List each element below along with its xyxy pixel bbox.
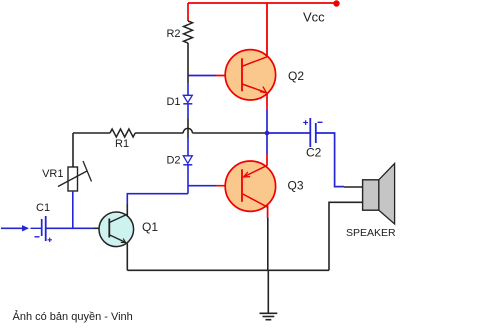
wire: rail to ground bbox=[267, 270, 269, 313]
transistor Q1 bbox=[99, 212, 158, 247]
wire: D2 to Q3 base node bbox=[187, 165, 189, 194]
wire: node to Q3 base bbox=[188, 185, 216, 187]
speaker bbox=[346, 164, 396, 240]
wire: Vcc rail to R2 bbox=[187, 3, 189, 21]
potentiometer VR1 bbox=[42, 161, 91, 191]
svg-text:Q2: Q2 bbox=[288, 69, 304, 83]
wire: Q2 base node to Q2 base bbox=[188, 75, 216, 77]
svg-text:Ảnh có bản quyền - Vinh: Ảnh có bản quyền - Vinh bbox=[13, 310, 133, 323]
capacitor C2 bbox=[303, 118, 322, 160]
wire: Q1 emitter to bottom rail bbox=[126, 244, 128, 271]
wire: Vcc rail to Q2 collector bbox=[266, 3, 268, 57]
capacitor C1 bbox=[35, 202, 53, 242]
wire: bottom rail bbox=[127, 269, 329, 271]
Vcc supply dot bbox=[333, 0, 339, 6]
svg-text:Vcc: Vcc bbox=[303, 10, 325, 25]
wire: R2 to Q2 base node bbox=[187, 43, 189, 76]
wire: C2 to speaker top terminal bbox=[316, 133, 344, 187]
resistor R1 bbox=[73, 129, 183, 150]
svg-text:D2: D2 bbox=[166, 155, 180, 167]
svg-text:C1: C1 bbox=[36, 202, 50, 214]
wire: speaker return to rail bbox=[329, 202, 363, 270]
node: output junction dot bbox=[265, 131, 270, 136]
svg-text:SPEAKER: SPEAKER bbox=[346, 227, 396, 239]
wire: VR1 to input node bbox=[72, 191, 74, 228]
diode D2 bbox=[166, 155, 192, 167]
svg-text:C2: C2 bbox=[306, 146, 322, 160]
svg-text:R2: R2 bbox=[166, 28, 180, 40]
wire: node to Q1 collector bbox=[127, 194, 188, 204]
svg-text:R1: R1 bbox=[115, 138, 129, 150]
wire: output node to C2 bbox=[267, 132, 310, 134]
wire: C1 to Q1 base bbox=[46, 227, 94, 229]
svg-text:VR1: VR1 bbox=[42, 168, 63, 180]
svg-text:Q3: Q3 bbox=[288, 179, 304, 193]
input signal arrow bbox=[1, 225, 41, 231]
transistor Q3 bbox=[225, 161, 304, 211]
transistor Q2 bbox=[225, 50, 304, 100]
ground bbox=[260, 313, 278, 319]
wire: hop to output node bbox=[192, 132, 266, 134]
svg-text:Q1: Q1 bbox=[142, 220, 158, 234]
wire: D1 to D2 (with hop gap colors) bbox=[187, 104, 189, 118]
wire: output node to Q3 emitter bbox=[266, 133, 268, 154]
diode D1 bbox=[166, 95, 192, 108]
resistor R2 bbox=[184, 21, 193, 43]
wire: Q3 collector to rail bbox=[267, 206, 269, 219]
wire: R1 down to VR1 bbox=[72, 133, 74, 167]
wire hop over diode chain bbox=[183, 128, 192, 133]
wire: Q2 emitter to output node bbox=[266, 93, 268, 110]
wire: Vcc top rail bbox=[188, 2, 337, 4]
wire: base node down to D1 bbox=[187, 76, 189, 84]
svg-text:D1: D1 bbox=[166, 96, 180, 108]
